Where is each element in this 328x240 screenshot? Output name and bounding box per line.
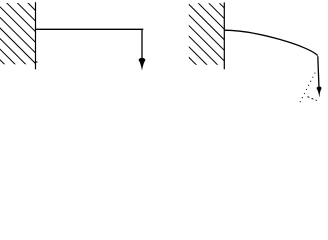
left wall hatching [0, 0, 125, 100]
left beam [36, 28, 144, 30]
right wall face line [223, 2, 225, 69]
left force arrow shaft [141, 29, 143, 61]
deflected beam curve [224, 30, 317, 55]
right wall hatching [132, 0, 291, 108]
right force arrowhead [317, 87, 322, 98]
left wall face line [35, 2, 37, 69]
left force arrowhead [139, 58, 146, 71]
right force arrow shaft [318, 56, 319, 88]
small tick on wall face [36, 61, 38, 63]
dotted construction line A [300, 73, 315, 103]
dotted construction line B [308, 97, 317, 101]
